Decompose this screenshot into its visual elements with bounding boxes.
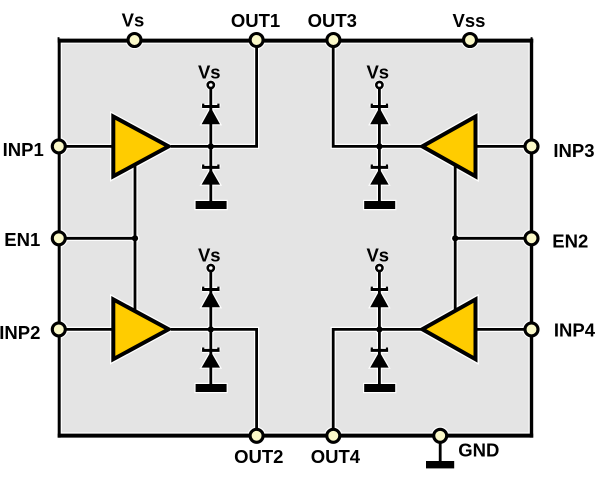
svg-text:INP1: INP1	[3, 139, 44, 160]
pin OUT4	[327, 429, 340, 442]
ESD clamp 1 (at A1 output)	[196, 82, 227, 209]
svg-text:INP2: INP2	[0, 322, 40, 343]
wire INP1 to A1 input	[59, 145, 116, 148]
IC package body	[58, 39, 533, 438]
pin INP1	[52, 140, 65, 153]
buffer amplifier A2	[113, 299, 168, 359]
corner tick top-right	[531, 37, 533, 39]
svg-text:Vs: Vs	[198, 61, 221, 82]
diode D3A body	[370, 108, 388, 125]
pin EN2	[525, 232, 538, 245]
node Vs clamp3	[376, 82, 382, 88]
wire INP2 to A2 input	[59, 328, 116, 331]
ESD clamp 2 (at A2 output)	[196, 265, 227, 392]
svg-text:Vs: Vs	[366, 244, 389, 265]
wire clamp1 vertical	[209, 88, 212, 202]
wire EN1 to enable rail	[59, 237, 135, 240]
diode D3B cathode bar	[371, 166, 388, 169]
diode D2A body	[202, 291, 220, 308]
ground bar clamp1	[196, 201, 227, 209]
wire top border	[58, 39, 534, 43]
diode D2B cathode bar	[202, 349, 219, 352]
pin OUT1	[250, 34, 263, 47]
wire bottom border	[58, 434, 534, 438]
junction A4 output	[376, 326, 382, 332]
ground bar clamp2	[196, 384, 227, 392]
svg-text:INP4: INP4	[554, 319, 596, 340]
svg-text:GND: GND	[458, 439, 499, 460]
diode D4B body	[370, 352, 388, 368]
pin Vss	[464, 34, 477, 47]
svg-text:EN2: EN2	[552, 231, 588, 252]
pin INP3	[525, 140, 538, 153]
diode D1B body	[202, 169, 220, 185]
diode D4B cathode bar	[371, 349, 388, 352]
wire INP3 to A3 input	[475, 145, 532, 148]
buffer amplifier A3	[422, 117, 475, 177]
svg-text:Vss: Vss	[453, 10, 486, 31]
pin INP2	[52, 323, 65, 336]
junction A3 output	[376, 143, 382, 149]
svg-text:OUT4: OUT4	[311, 446, 361, 467]
wire net OUT3 (A3 output up to OUT3 pin)	[333, 40, 421, 146]
svg-text:OUT1: OUT1	[231, 10, 280, 31]
pin GND	[434, 429, 447, 442]
wire INP4 to A4 input	[475, 328, 532, 331]
pin OUT2	[250, 429, 263, 442]
wire net OUT1 (A1 output up to OUT1 pin)	[171, 40, 257, 146]
junction EN2 rail	[452, 235, 458, 241]
corner tick top-left	[58, 37, 60, 39]
diode D1A cathode bar	[202, 105, 219, 108]
ESD clamp 4 (at A4 output)	[364, 265, 395, 392]
wire net OUT4 (A4 output down to OUT4 pin)	[333, 329, 421, 435]
ground bar clamp4	[364, 384, 395, 392]
halo layer (light anti-halo around inked strokes)	[50, 31, 541, 470]
pin INP4	[525, 323, 538, 336]
diode D1A body	[202, 108, 220, 125]
ESD clamp 3 (at A3 output)	[364, 82, 395, 209]
svg-text:Vs: Vs	[366, 61, 389, 82]
node Vs clamp1	[208, 82, 214, 88]
svg-text:Vs: Vs	[122, 9, 145, 30]
wire EN2 to enable rail	[455, 237, 531, 240]
wire left border	[58, 39, 61, 438]
wire right enable rail (A3 to A4)	[454, 163, 457, 312]
wire right border	[530, 39, 533, 438]
ground bar clamp3	[364, 201, 395, 209]
buffer amplifier A4	[422, 299, 475, 359]
wire clamp2 vertical	[209, 271, 212, 385]
junction A1 output	[208, 143, 214, 149]
pin OUT3	[327, 34, 340, 47]
node Vs clamp4	[376, 265, 382, 271]
diode D2A cathode bar	[202, 288, 219, 291]
ground bar GND	[426, 461, 454, 468]
svg-text:Vs: Vs	[198, 244, 221, 265]
pin EN1	[52, 232, 65, 245]
wire left enable rail (A1 to A2)	[134, 163, 137, 312]
wire clamp4 vertical	[378, 271, 381, 385]
wire clamp3 vertical	[378, 88, 381, 202]
svg-text:OUT2: OUT2	[234, 446, 283, 467]
node Vs clamp2	[208, 265, 214, 271]
diode D1B cathode bar	[202, 166, 219, 169]
diode D2B body	[202, 352, 220, 368]
pin Vs	[128, 34, 141, 47]
svg-text:EN1: EN1	[4, 229, 40, 250]
diode D4A body	[370, 291, 388, 308]
diode D3B body	[370, 169, 388, 185]
buffer amplifier A1	[113, 117, 168, 177]
diode D4A cathode bar	[371, 288, 388, 291]
svg-text:INP3: INP3	[553, 140, 594, 161]
wire GND stub	[439, 436, 442, 462]
junction EN1 rail	[132, 235, 138, 241]
wire net OUT2 (A2 output down to OUT2 pin)	[171, 329, 257, 435]
junction A2 output	[208, 326, 214, 332]
svg-text:OUT3: OUT3	[308, 10, 357, 31]
diode D3A cathode bar	[371, 105, 388, 108]
